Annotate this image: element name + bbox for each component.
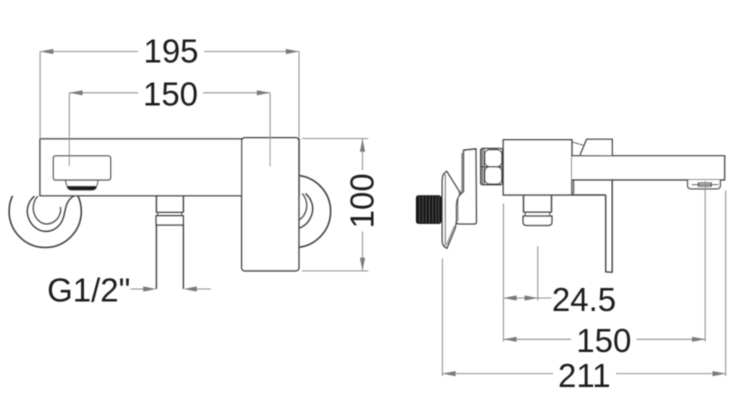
shower outlet pipe below body (front view) [156, 196, 183, 213]
elbow inner wall curve [458, 153, 462, 221]
svg-text:195: 195 [143, 33, 198, 70]
dim 211 extension left (wall plane) [441, 259, 443, 377]
outlet waist (side view) [525, 212, 550, 216]
dim 211 line [442, 373, 553, 375]
dim 150 extension right (into handle) [269, 93, 271, 167]
dim 150 arrows [503, 337, 516, 342]
elbow top edge [464, 149, 476, 150]
dim 100 bottom extension [302, 270, 368, 272]
svg-text:100: 100 [344, 173, 381, 228]
G1/2 arrow left [131, 288, 147, 290]
dim 24.5 line [503, 297, 551, 299]
spout aerator at tip [688, 180, 721, 189]
dim 195 extension right [298, 52, 300, 138]
dim 24.5 arrows [503, 295, 516, 300]
dim 195 extension left [39, 52, 41, 140]
left escutcheon outer circle [9, 175, 81, 247]
left escutcheon inner hub arcs [27, 196, 74, 232]
mixer body bar (front view) [40, 139, 299, 196]
boss shallow diagonal from body corner [572, 142, 583, 145]
dim 195 line [40, 51, 138, 53]
dim 150 line [503, 338, 571, 340]
wall flange (escutcheon side view) [442, 171, 460, 248]
shower outlet (side view) [524, 195, 552, 212]
dim 150 line [69, 92, 138, 94]
dim 100 arrows [360, 139, 365, 152]
base line to handle bar [572, 194, 606, 196]
handle hinge hatch [571, 181, 574, 194]
flange lower cone inner line [447, 226, 455, 245]
svg-text:211: 211 [558, 357, 611, 394]
handle boss (side view) [580, 139, 612, 155]
outlet neck line (front view) [156, 211, 184, 213]
dim 150 extension left (into spout plate) [68, 93, 70, 166]
svg-text:24.5: 24.5 [552, 281, 616, 318]
wall union elbow [456, 149, 476, 224]
outlet flare line (front view) [156, 215, 184, 217]
right escutcheon outer circle [258, 175, 330, 247]
flange rim inner line [444, 174, 446, 246]
dim 211 extension right (spout tip) [725, 191, 727, 377]
svg-text:G1/2": G1/2" [47, 272, 130, 309]
hex nut [481, 148, 503, 184]
dim 211 arrows [442, 371, 455, 376]
G1/2 threaded pipe (front view) [156, 225, 183, 289]
dim 24.5 extension right [537, 246, 539, 301]
svg-text:150: 150 [143, 76, 198, 113]
dim 24.5 extension left (shared with 150) [502, 204, 504, 342]
handle (front view tall rectangle) [242, 138, 299, 271]
outlet waist (front view) [158, 212, 182, 215]
outlet cap (side view) [523, 216, 552, 225]
aerator dark ring (front view) [67, 186, 98, 191]
dim 100 line [362, 139, 364, 171]
threaded wall nipple [417, 196, 441, 224]
spout plate (front view) [53, 156, 110, 180]
G1/2 arrow right [193, 288, 211, 290]
outlet collar band (front view) [156, 216, 183, 225]
dim 195 arrows [40, 49, 53, 54]
dim 150 arrows [69, 90, 82, 95]
spout (side view) [572, 156, 725, 180]
svg-text:150: 150 [576, 322, 631, 359]
dim 100 top extension [302, 138, 368, 140]
aerator neck (front view) [66, 180, 98, 186]
dim 150 extension right (aerator center) [704, 181, 706, 342]
right escutcheon inner hub arcs [266, 193, 313, 229]
handle lever bar (side view) [606, 180, 613, 272]
mixer body block (side view) [503, 140, 572, 195]
outlet neck line (side view) [523, 211, 552, 213]
